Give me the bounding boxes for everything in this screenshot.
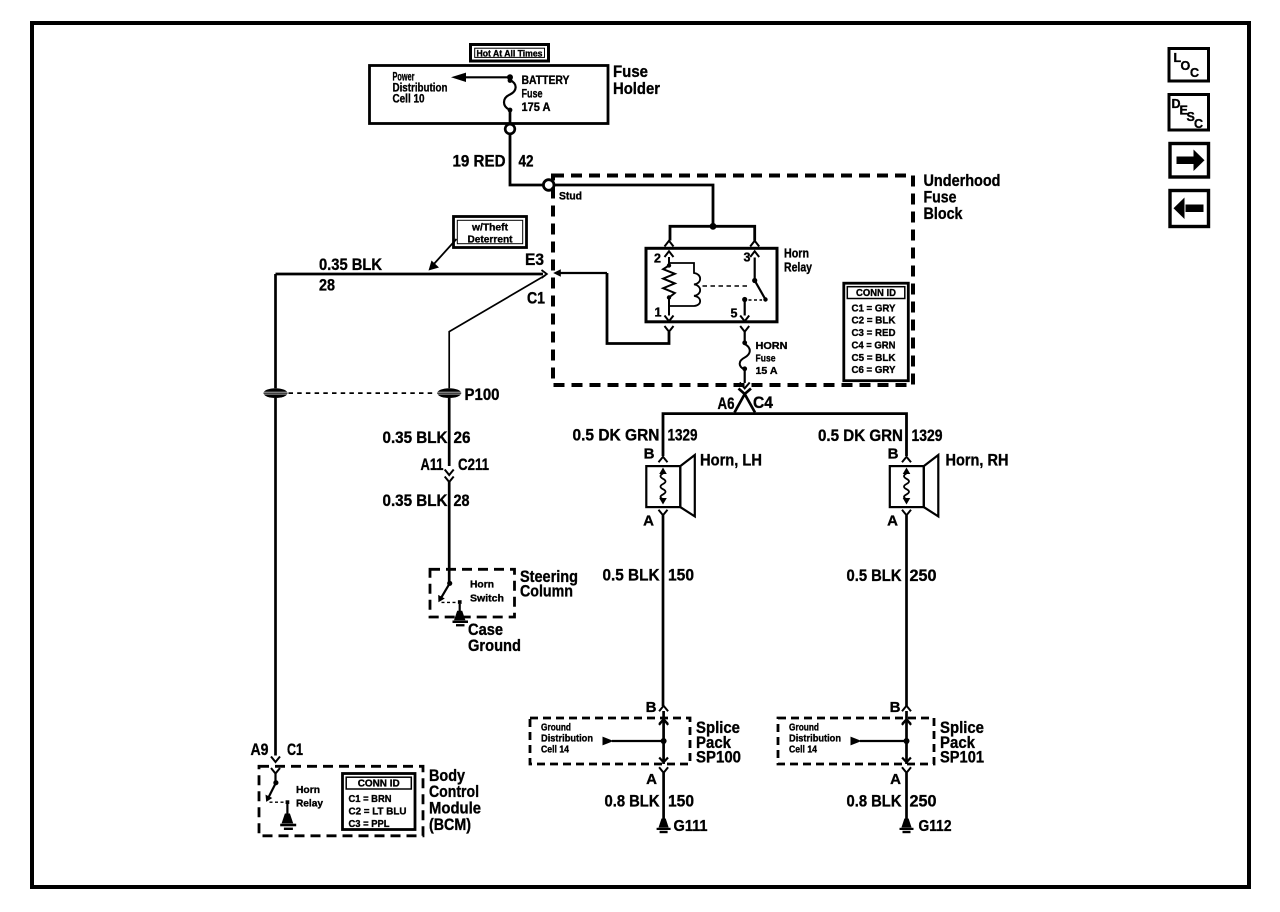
svg-text:w/Theft: w/Theft [471,222,508,234]
svg-text:C1 = BRN: C1 = BRN [349,793,392,805]
svg-text:3: 3 [744,251,751,265]
svg-text:150: 150 [668,792,694,811]
svg-text:C1: C1 [287,740,303,759]
svg-text:0.35 BLK: 0.35 BLK [383,428,449,447]
svg-text:Horn: Horn [296,784,320,796]
svg-text:28: 28 [454,491,470,510]
svg-text:Distribution: Distribution [789,734,841,745]
svg-text:250: 250 [910,566,937,585]
svg-text:C211: C211 [458,455,489,474]
svg-text:C4: C4 [753,393,773,412]
svg-text:Deterrent: Deterrent [468,234,513,246]
svg-text:C: C [1190,66,1199,80]
svg-text:P100: P100 [465,385,500,404]
svg-text:Fuse: Fuse [522,87,543,101]
svg-text:0.5 DK GRN: 0.5 DK GRN [818,426,903,445]
svg-text:C5 = BLK: C5 = BLK [852,352,896,364]
svg-text:0.5 DK GRN: 0.5 DK GRN [573,426,660,445]
svg-text:Distribution: Distribution [541,734,593,745]
svg-text:B: B [644,446,655,463]
svg-text:175 A: 175 A [522,100,551,114]
svg-text:SP101: SP101 [940,748,984,767]
svg-text:Relay: Relay [296,798,323,810]
svg-text:SP100: SP100 [696,748,741,767]
svg-text:G112: G112 [919,818,952,835]
svg-text:C2 = LT BLU: C2 = LT BLU [349,806,407,818]
svg-text:A11: A11 [421,455,444,474]
svg-text:150: 150 [668,566,694,585]
svg-text:A6: A6 [718,394,735,413]
svg-text:Hot At All Times: Hot At All Times [477,49,543,60]
svg-text:0.35 BLK: 0.35 BLK [383,491,449,510]
svg-text:A: A [887,513,898,530]
svg-text:0.5 BLK: 0.5 BLK [603,566,661,585]
svg-text:C4 = GRN: C4 = GRN [852,339,896,351]
svg-text:Holder: Holder [613,79,660,98]
svg-text:15 A: 15 A [756,365,778,377]
svg-text:Relay: Relay [784,261,812,275]
svg-text:5: 5 [731,307,738,321]
svg-text:Cell 10: Cell 10 [393,92,425,106]
svg-text:B: B [890,699,901,716]
svg-text:C2 = BLK: C2 = BLK [852,315,896,327]
svg-text:Ground: Ground [468,636,521,655]
svg-text:O: O [1181,59,1191,73]
svg-text:C1: C1 [527,289,545,308]
svg-text:B: B [646,699,657,716]
svg-text:Switch: Switch [470,593,504,605]
svg-text:Column: Column [520,582,573,601]
svg-text:(BCM): (BCM) [429,815,471,834]
svg-text:Horn, RH: Horn, RH [946,451,1009,470]
svg-text:G111: G111 [674,818,708,835]
svg-text:CONN ID: CONN ID [856,287,896,299]
svg-text:BATTERY: BATTERY [522,73,570,87]
svg-text:A9: A9 [251,740,269,759]
svg-text:A: A [646,771,657,788]
svg-text:Horn: Horn [470,579,494,591]
svg-text:C1 = GRY: C1 = GRY [852,302,896,314]
svg-text:28: 28 [319,276,335,295]
svg-text:B: B [888,446,899,463]
svg-text:CONN ID: CONN ID [358,777,400,789]
svg-text:0.8 BLK: 0.8 BLK [847,792,903,811]
svg-text:0.35 BLK: 0.35 BLK [319,255,383,274]
svg-text:Ground: Ground [789,723,819,734]
svg-text:C6 = GRY: C6 = GRY [852,364,896,376]
svg-text:HORN: HORN [756,340,788,352]
svg-text:1: 1 [655,306,662,320]
svg-text:Cell 14: Cell 14 [541,745,569,756]
svg-text:Stud: Stud [559,191,582,203]
svg-text:Fuse: Fuse [756,353,776,365]
svg-text:2: 2 [654,252,661,266]
svg-text:Cell 14: Cell 14 [789,745,817,756]
svg-text:A: A [890,771,901,788]
svg-text:Horn, LH: Horn, LH [700,451,762,470]
svg-text:250: 250 [910,792,937,811]
svg-text:C3 = PPL: C3 = PPL [349,818,391,830]
svg-text:42: 42 [519,152,534,171]
svg-text:E3: E3 [525,250,544,269]
svg-text:0.8 BLK: 0.8 BLK [605,792,661,811]
svg-text:Block: Block [924,204,963,223]
svg-text:1329: 1329 [912,426,943,445]
svg-text:Ground: Ground [541,723,571,734]
svg-text:26: 26 [454,428,471,447]
svg-text:Horn: Horn [784,247,809,261]
svg-text:C: C [1194,117,1203,131]
svg-text:C3 = RED: C3 = RED [852,327,896,339]
svg-text:A: A [643,513,654,530]
svg-text:1329: 1329 [668,426,698,445]
svg-text:19 RED: 19 RED [453,152,506,171]
svg-text:0.5 BLK: 0.5 BLK [847,566,903,585]
